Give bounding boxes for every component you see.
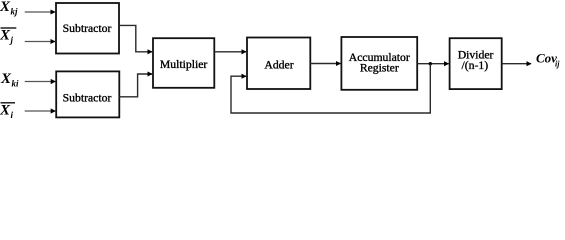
input arrow X_kj [25,11,55,13]
subtractor box 1 [56,3,119,54]
svg-text:ki: ki [12,79,20,89]
wire adder to accumulator [310,63,340,65]
wire accumulator to divider [417,63,448,65]
multiplier box [153,38,214,88]
svg-text:kj: kj [11,7,19,17]
svg-text:Subtractor: Subtractor [63,92,112,105]
label Xbar_j [0,27,16,45]
svg-text:ij: ij [555,60,560,69]
subtractor box 2 [56,71,119,117]
svg-text:X: X [0,71,12,87]
junction dot [429,62,432,65]
divider box [450,38,502,89]
label Cov_ij [536,50,560,68]
input arrow Xbar_i [25,110,56,112]
svg-text:Multiplier: Multiplier [160,58,208,71]
wire subtractor1 to multiplier [119,25,152,51]
svg-text:Adder: Adder [264,58,293,71]
label Xbar_i [0,103,15,121]
wire subtractor2 to multiplier [119,74,152,97]
svg-text:X: X [0,103,11,119]
adder box [247,38,310,90]
input arrow Xbar_j [25,41,55,43]
svg-text:/(n-1): /(n-1) [461,59,488,72]
wire divider to output [502,63,531,65]
svg-text:i: i [11,110,14,120]
svg-text:Subtractor: Subtractor [63,22,112,35]
label X_kj [0,0,18,17]
accumulator register box [341,37,417,90]
label X_ki [0,71,19,89]
input arrow X_ki [25,81,56,83]
svg-text:Register: Register [360,62,399,75]
wire multiplier to adder [214,51,246,53]
svg-text:X: X [0,27,11,43]
feedback wire accumulator to adder [231,64,430,113]
svg-text:Cov: Cov [536,50,557,65]
svg-text:X: X [0,0,11,15]
